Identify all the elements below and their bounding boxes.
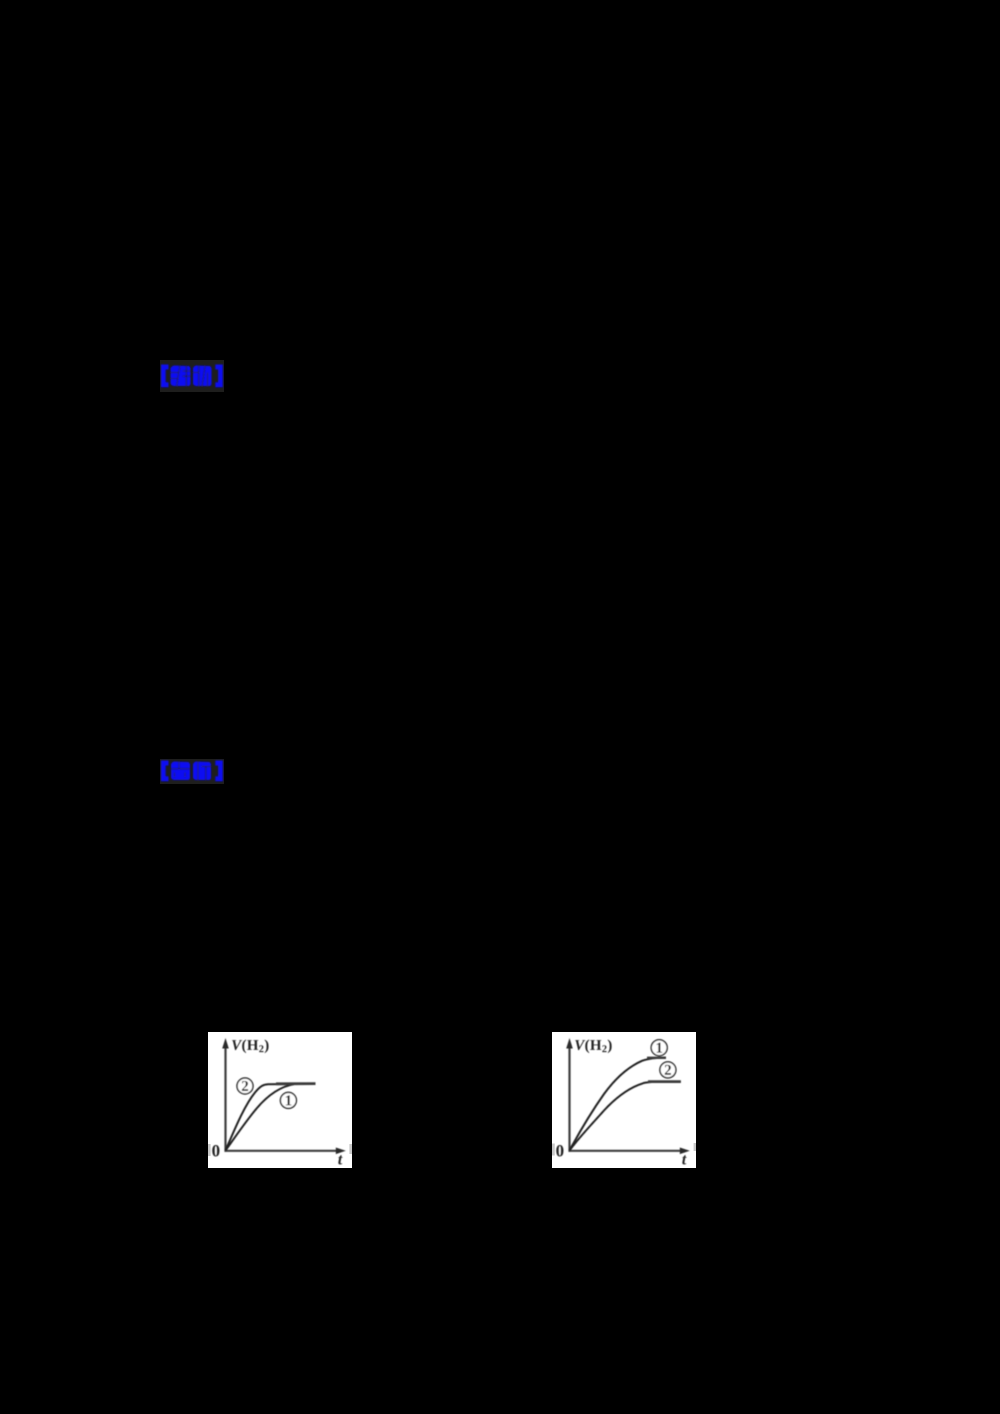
edge artifact left xyxy=(552,1144,555,1156)
label badge 2: blue CJK heading on dark grey box xyxy=(160,759,224,784)
right lenticular bracket xyxy=(215,761,223,782)
circled 2 xyxy=(660,1062,676,1078)
graph panel 1 xyxy=(208,1032,352,1168)
plateau overlay 1 xyxy=(647,1057,666,1059)
axis label V(H2) xyxy=(232,1040,242,1050)
circled 2 xyxy=(237,1078,253,1094)
circled 1 xyxy=(651,1040,667,1056)
edge artifact right xyxy=(694,1143,696,1151)
t label xyxy=(682,1155,686,1164)
y-axis xyxy=(568,1045,570,1152)
curve 2 lower xyxy=(570,1082,681,1151)
glyph dian (dense blob) xyxy=(171,762,190,781)
x-axis xyxy=(225,1150,338,1152)
left lenticular bracket xyxy=(161,365,169,388)
plateau overlay 2 xyxy=(648,1080,681,1083)
edge artifact left xyxy=(208,1144,211,1156)
glyph xi (dense blob) xyxy=(193,366,212,387)
glyph ping (dense blob) xyxy=(193,762,211,781)
circled 1 xyxy=(280,1092,296,1108)
y-axis xyxy=(224,1045,226,1152)
edge artifact right xyxy=(349,1144,352,1154)
y-axis arrowhead xyxy=(566,1038,573,1049)
curve 2 steep xyxy=(226,1084,316,1151)
curve 1 shallow xyxy=(226,1084,295,1150)
axis label V(H2) xyxy=(575,1040,585,1050)
graph panel 2 xyxy=(552,1032,696,1168)
origin label 0 xyxy=(556,1145,563,1156)
t label xyxy=(338,1155,342,1164)
x-axis xyxy=(569,1150,682,1152)
plateau overlay xyxy=(276,1082,316,1085)
origin label 0 xyxy=(212,1145,219,1156)
x-axis arrowhead xyxy=(336,1148,346,1155)
x-axis arrowhead xyxy=(680,1148,690,1155)
left lenticular bracket xyxy=(161,761,169,782)
curve 1 upper xyxy=(570,1058,667,1151)
label badge 1: blue CJK heading on dark grey box xyxy=(160,360,224,392)
right lenticular bracket xyxy=(215,365,223,388)
glyph jie (dense blob) xyxy=(171,366,191,387)
y-axis arrowhead xyxy=(222,1038,229,1049)
